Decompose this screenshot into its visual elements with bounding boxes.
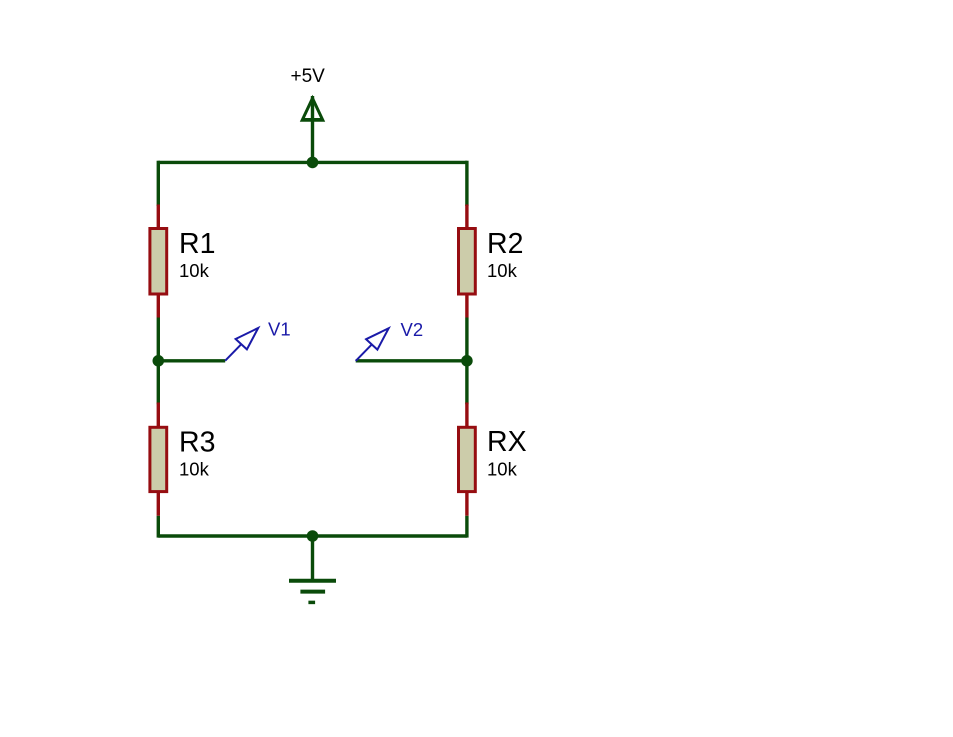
svg-text:+5V: +5V <box>291 66 326 87</box>
svg-text:R3: R3 <box>179 427 215 459</box>
svg-text:10k: 10k <box>179 459 210 480</box>
svg-text:10k: 10k <box>487 260 518 281</box>
svg-text:10k: 10k <box>487 459 518 480</box>
wire bottom-right <box>313 534 467 537</box>
node bottom junction <box>307 530 319 542</box>
node right junction <box>461 355 473 367</box>
wire left middle <box>157 318 160 405</box>
resistor R2 <box>459 205 476 318</box>
svg-text:R1: R1 <box>179 228 215 260</box>
wire top-right <box>313 161 467 164</box>
resistor RX <box>459 403 476 516</box>
node left junction <box>153 355 165 367</box>
wire probe V1 <box>158 359 225 362</box>
probe V1 <box>225 328 258 361</box>
node top junction <box>307 157 319 169</box>
wire bottom-left <box>158 534 312 537</box>
svg-text:10k: 10k <box>179 260 210 281</box>
svg-text:V1: V1 <box>268 318 291 339</box>
wire top-left <box>158 161 312 164</box>
resistor R1 <box>150 205 167 318</box>
wire left upper <box>157 161 160 206</box>
resistor R3 <box>150 403 167 516</box>
power symbol arrow <box>300 95 325 163</box>
wire right upper <box>465 161 468 206</box>
svg-text:V2: V2 <box>401 319 424 340</box>
wire right middle <box>465 318 468 405</box>
wire left lower <box>157 516 160 538</box>
probe V2 <box>356 328 389 361</box>
svg-text:R2: R2 <box>487 228 523 260</box>
wire right lower <box>465 516 468 538</box>
wire probe V2 <box>356 359 467 362</box>
svg-text:RX: RX <box>487 426 527 458</box>
ground <box>289 536 336 602</box>
